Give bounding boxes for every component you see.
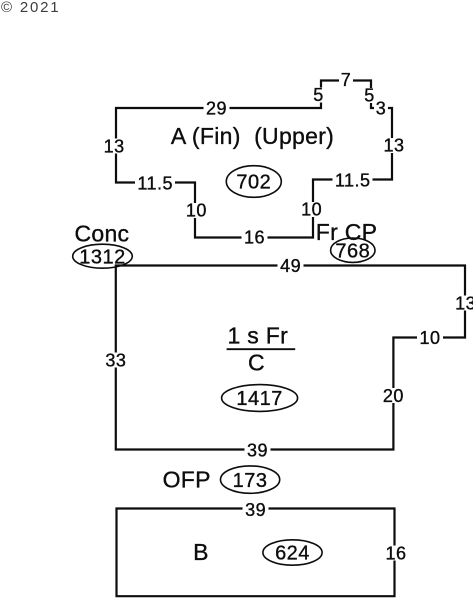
dimension 33 left edge of C: [103, 350, 129, 370]
dimension 49 top edge of C: [278, 256, 304, 276]
svg-text:OFP: OFP: [163, 467, 211, 493]
area A (Fin) (Upper) outline: [116, 81, 392, 238]
area oval 768: [331, 238, 375, 262]
svg-text:13: 13: [383, 136, 404, 156]
area oval 702: [226, 166, 281, 198]
dimension 11.5 right of A: [333, 170, 373, 190]
svg-text:29: 29: [206, 98, 227, 118]
svg-text:39: 39: [247, 440, 268, 460]
svg-text:© 2021: © 2021: [1, 0, 60, 16]
dimension 5 notch right of A: [363, 85, 377, 105]
dimension 10 right inner of A: [299, 200, 325, 220]
svg-text:173: 173: [233, 470, 268, 492]
svg-text:1 s Fr: 1 s Fr: [228, 323, 289, 349]
dimension 3 of A: [374, 99, 388, 119]
dimension 16 right edge of B: [383, 543, 409, 563]
svg-text:A (Fin) (Upper): A (Fin) (Upper): [171, 123, 334, 149]
svg-text:49: 49: [280, 256, 301, 276]
svg-text:20: 20: [383, 386, 404, 406]
svg-text:1417: 1417: [236, 388, 283, 410]
svg-text:C: C: [248, 350, 265, 376]
area C (1 s Fr) outline: [116, 266, 465, 450]
svg-text:39: 39: [245, 500, 266, 520]
dimension 13 left edge of A: [101, 136, 127, 156]
dimension 11.5 left of A: [135, 173, 175, 193]
dimension 16 bottom of A: [242, 228, 268, 248]
svg-text:768: 768: [335, 240, 370, 262]
svg-text:Conc: Conc: [74, 220, 129, 246]
dimension 10 step of C: [417, 328, 443, 348]
dimension 7 notch top of A: [339, 70, 353, 90]
dimension 39 bottom edge of C: [245, 440, 271, 460]
svg-text:10: 10: [419, 328, 440, 348]
dimension 29 top edge of A: [204, 98, 230, 118]
svg-text:16: 16: [385, 543, 406, 563]
dimension 39 top edge of B: [243, 500, 269, 520]
dimension 10 left inner of A: [184, 201, 210, 221]
svg-text:11.5: 11.5: [137, 173, 173, 193]
svg-text:16: 16: [244, 228, 265, 248]
area oval 624: [263, 540, 322, 565]
dimension 13 right edge of C: [453, 293, 473, 313]
svg-text:702: 702: [236, 172, 271, 194]
svg-text:10: 10: [186, 201, 207, 221]
svg-text:B: B: [193, 539, 209, 565]
area oval 1417: [222, 385, 298, 412]
svg-text:624: 624: [275, 543, 310, 565]
dimension 20 inner edge of C: [381, 386, 407, 406]
svg-text:13: 13: [104, 136, 125, 156]
svg-text:10: 10: [301, 200, 322, 220]
area B outline: [117, 509, 395, 597]
dimension 5 notch left of A: [312, 85, 326, 105]
area oval 1312: [73, 244, 133, 268]
svg-text:13: 13: [455, 293, 473, 313]
svg-text:11.5: 11.5: [335, 170, 371, 190]
area oval 173: [221, 466, 280, 493]
svg-text:33: 33: [105, 350, 126, 370]
svg-text:5: 5: [313, 85, 324, 105]
dimension 13 right edge of A: [381, 136, 407, 156]
svg-text:3: 3: [376, 99, 387, 119]
svg-text:5: 5: [364, 85, 375, 105]
svg-text:7: 7: [341, 70, 352, 90]
fraction underline: [227, 348, 296, 350]
